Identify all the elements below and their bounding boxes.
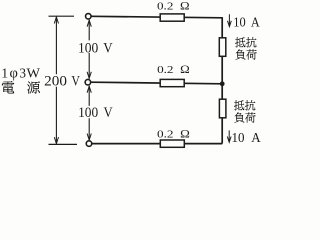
svg-text:1φ3W: 1φ3W — [1, 65, 40, 81]
wire right column between load 2 and bottom line — [221, 118, 223, 144]
resistor R3 0.2 ohm (bottom line) — [160, 140, 184, 147]
svg-text:100V: 100V — [78, 105, 113, 121]
terminal C (bottom, open circle) — [86, 141, 92, 147]
wire top line (terminal A to right corner, down to load 1) — [91, 16, 222, 38]
dimension 200 V: top tick — [49, 15, 75, 17]
svg-text:100V: 100V — [78, 40, 113, 56]
current arrow 10 A top — [228, 14, 232, 26]
label load 2 fuka (kanji) — [234, 112, 244, 122]
label load 1 fuka (kanji) — [235, 49, 245, 59]
dimension 200 V: line and arrowheads — [55, 17, 57, 144]
wire middle line (neutral, terminal B to junction) — [91, 82, 222, 84]
dimension 200 V: bottom tick — [49, 143, 78, 145]
resistor load 1 (upper 100 V branch) — [219, 38, 226, 57]
terminal B (middle, open circle) — [85, 79, 91, 85]
node junction (neutral joins right column) — [220, 81, 225, 86]
label source dengen (kanji) — [2, 81, 15, 93]
dimension 100 V upper: line and arrowheads — [88, 20, 90, 79]
svg-text:200V: 200V — [44, 73, 80, 89]
label load 1 teikou (kanji) — [235, 37, 245, 47]
resistor load 2 (lower 100 V branch) — [219, 99, 226, 118]
terminal A (top, open circle) — [86, 14, 92, 20]
current arrow 10 A bottom — [227, 130, 231, 142]
dimension 100 V lower: line and arrowheads — [88, 86, 90, 140]
label load 2 teikou (kanji) — [234, 100, 244, 110]
resistor R1 0.2 ohm (top line) — [160, 14, 184, 21]
resistor R2 0.2 ohm (middle line) — [160, 79, 184, 86]
wire right column between load 1 and junction — [221, 56, 223, 99]
wire bottom line (terminal C to right column) — [92, 143, 222, 145]
